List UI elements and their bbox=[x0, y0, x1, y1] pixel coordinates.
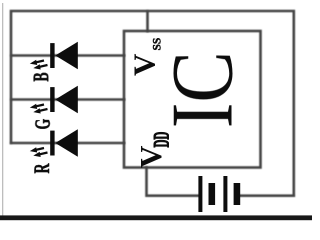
LED D1 (B) triangle bbox=[55, 42, 78, 69]
battery plate long 2 bbox=[223, 176, 227, 212]
battery BT1 bbox=[198, 176, 240, 212]
svg-text:DD: DD bbox=[150, 132, 174, 148]
wire: LED row G bbox=[11, 98, 124, 101]
wire: outer loop left bus + top wire + right wire bbox=[11, 11, 294, 196]
LED D2 (G) triangle bbox=[55, 86, 78, 113]
wire: Vdd stub to battery bbox=[147, 168, 199, 196]
svg-text:IC: IC bbox=[153, 51, 251, 128]
LED D3 (R) triangle bbox=[55, 129, 78, 156]
LED D2 (G) cathode bar bbox=[50, 87, 54, 112]
svg-text:V: V bbox=[133, 145, 168, 168]
LED D1 (B) arrows bbox=[30, 60, 48, 70]
wire: LED row R bbox=[11, 142, 124, 145]
wire: LED row B bbox=[11, 54, 124, 57]
LED D2 (G) arrows bbox=[30, 104, 48, 114]
wire: Vss stub bbox=[146, 11, 149, 31]
battery plate short 2 bbox=[234, 183, 241, 205]
svg-text:B: B bbox=[29, 72, 53, 81]
svg-text:G: G bbox=[31, 119, 55, 130]
svg-text:SS: SS bbox=[152, 38, 164, 51]
svg-text:R: R bbox=[30, 163, 54, 174]
IC U1 box bbox=[124, 31, 261, 168]
battery plate long 1 bbox=[198, 176, 202, 212]
page edge line (left) bbox=[2, 3, 3, 216]
LED D3 (R) arrows bbox=[30, 147, 48, 157]
LED D3 (R) cathode bar bbox=[50, 131, 54, 156]
LED D1 (B) cathode bar bbox=[50, 43, 54, 68]
battery plate short 1 bbox=[209, 183, 216, 205]
svg-text:V: V bbox=[127, 53, 162, 76]
bottom border band bbox=[0, 215, 312, 220]
wire: battery to right wire bbox=[240, 194, 294, 197]
